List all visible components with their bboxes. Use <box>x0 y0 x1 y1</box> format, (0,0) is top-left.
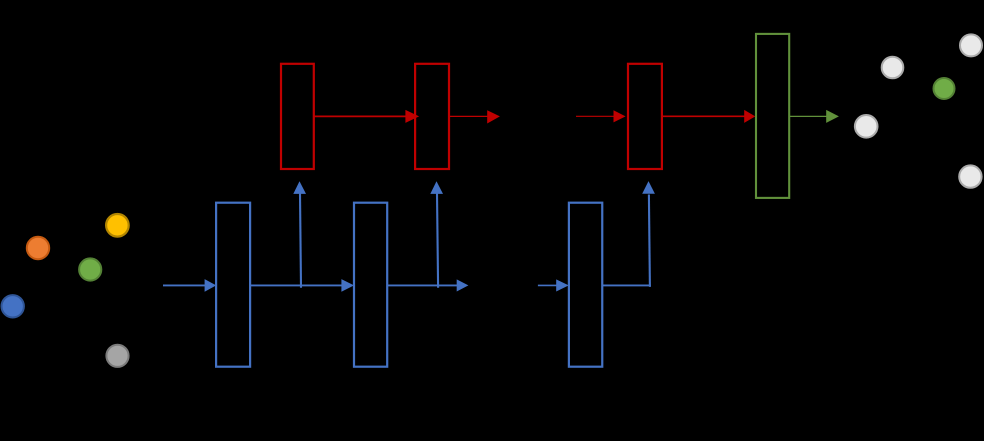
input node orange <box>27 237 49 259</box>
input node yellow <box>106 214 129 237</box>
output node gray 1 <box>855 115 878 138</box>
wire vertical arrow encoder2 up to decoder2 <box>430 181 443 288</box>
wire decoder1 to decoder2 red arrow <box>314 110 419 123</box>
encoder cell 1 (blue rectangle) <box>216 203 250 367</box>
wire encoder2 dangling arrow right <box>387 279 468 291</box>
output node gray 4 <box>959 165 981 187</box>
decoder cell 2 (red rectangle) <box>415 64 449 169</box>
output layer (green rectangle) <box>756 34 789 198</box>
wire decoder3 to output-layer red arrow <box>662 110 755 123</box>
output node gray 2 <box>882 57 904 79</box>
wire dangling arrow into encoder3 <box>538 279 569 291</box>
input node blue <box>2 295 24 317</box>
input node green <box>79 258 101 280</box>
wire vertical arrow encoder1 up to decoder1 <box>293 181 306 288</box>
wire vertical arrow encoder3 elbow up to decoder3 <box>642 181 655 287</box>
wire encoder1 to encoder2 arrow <box>250 279 354 292</box>
wire elbow from encoder3 right side <box>603 284 651 286</box>
output node green <box>934 78 955 99</box>
output node gray 3 <box>960 34 982 56</box>
wire dangling red arrow into decoder3 <box>576 110 626 122</box>
input node gray <box>106 345 128 367</box>
decoder cell 3 (red rectangle) <box>628 64 662 169</box>
wire input arrow into encoder cell 1 <box>163 279 216 292</box>
encoder cell 3 (blue rectangle) <box>569 203 602 367</box>
wire decoder2 dangling red arrow right <box>449 110 500 123</box>
decoder cell 1 (red rectangle) <box>281 64 314 169</box>
wire green output arrow <box>789 110 839 123</box>
encoder cell 2 (blue rectangle) <box>354 203 387 367</box>
